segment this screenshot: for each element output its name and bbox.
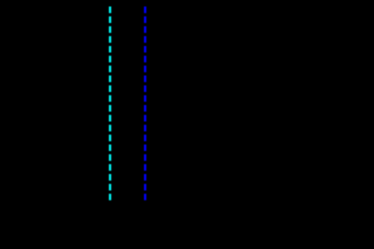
blue dashed vertical line (right marker) xyxy=(144,7,146,201)
cyan dashed vertical line (left marker) xyxy=(109,7,111,201)
